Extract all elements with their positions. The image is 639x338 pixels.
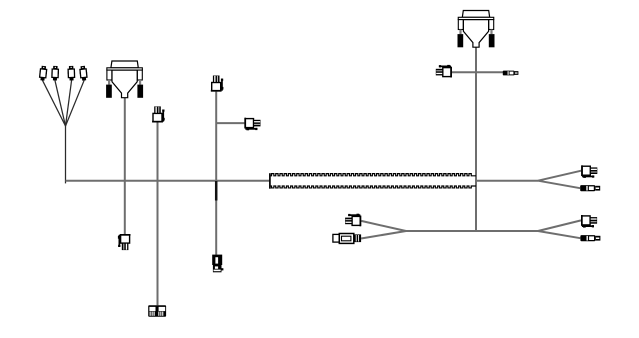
upper right fan wire to barrel plug J10 <box>538 181 580 189</box>
square plug J5 (vertical, cap down) <box>118 234 131 250</box>
fan plug A4 <box>79 66 88 81</box>
wire connector J1 down to modular connector J8 <box>157 123 159 306</box>
right trunk wire from DB25 P3 down <box>475 47 477 231</box>
square plug J9 <box>581 165 597 178</box>
upper right branch wire <box>476 180 538 182</box>
square plug J3 (horizontal, cap right) <box>244 118 260 131</box>
square plug J1 (vertical, cap up) <box>152 106 165 122</box>
fan plug A2 <box>51 66 59 81</box>
loom top corrugation <box>271 174 476 176</box>
square plug J4 (horizontal, cap left) <box>436 65 452 78</box>
modular connector J8 <box>148 305 166 317</box>
loom left end cap <box>269 173 271 189</box>
barrel plug J10 <box>580 185 600 191</box>
D-sub connector P3 <box>458 11 495 48</box>
barrel plug J7 (vertical, tip down) <box>212 255 223 273</box>
wire junction down to trunk <box>65 126 67 183</box>
D-sub connector P2 <box>106 61 143 98</box>
lower branch wire <box>406 230 538 232</box>
wire fan plug 3 to junction <box>66 80 72 126</box>
wire connector J2 down to barrel plug J7 <box>215 92 217 255</box>
fan plug A3 <box>67 66 75 81</box>
barrel plug J6 <box>503 71 519 76</box>
barrel plug J14 <box>580 235 600 241</box>
wire DB25 P2 down to connector J5 <box>124 98 126 234</box>
DIN plug J12 <box>333 234 361 244</box>
wire fan plug 1 to junction <box>42 80 65 126</box>
wire fan plug 2 to junction <box>55 80 66 126</box>
square plug J11 (cap left, latch top) <box>345 214 361 227</box>
trunk wire left section <box>66 180 271 182</box>
fan plug A1 <box>39 66 48 81</box>
branch wire to connector J3 <box>216 122 244 124</box>
cross wire connector J4 to barrel plug J6 <box>452 71 503 73</box>
wire fan plug 4 to junction <box>66 80 85 126</box>
lower left fan wire to DIN plug J12 <box>361 231 406 239</box>
square plug J2 (vertical, cap up) <box>211 76 224 92</box>
square plug J13 <box>581 215 597 228</box>
loom bottom corrugation <box>271 186 476 188</box>
heat shrink sleeve on wire below trunk <box>215 181 218 201</box>
lower right fan wire to barrel plug J14 <box>538 231 580 238</box>
lower left fan wire to square plug J11 <box>361 221 406 231</box>
lower right fan wire to square plug J13 <box>538 220 581 231</box>
upper right fan wire to square plug J9 <box>538 171 581 181</box>
